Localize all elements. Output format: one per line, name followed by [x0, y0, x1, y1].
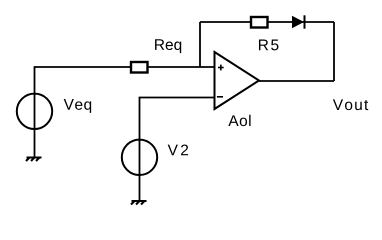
- label V2: [168, 144, 188, 155]
- wire right vertical from feedback down to output: [333, 22, 335, 81]
- op-amp + input mark: [218, 65, 224, 71]
- wire op-amp output to Vout node: [259, 80, 335, 82]
- wire feedback riser at node between Req and + input: [199, 22, 201, 67]
- label Vout: [333, 99, 368, 110]
- voltage source V2: [122, 140, 157, 175]
- op-amp Aol triangle: [215, 52, 260, 109]
- label Aol: [228, 115, 250, 126]
- wire from V2 up and across to op-amp - input: [140, 98, 215, 202]
- op-amp - input mark: [217, 96, 223, 98]
- wire from Veq up and across to resistor Req and op-amp + input: [35, 67, 215, 158]
- wire top feedback horizontal through R5 and diode: [200, 21, 334, 23]
- ground under V2: [131, 201, 147, 205]
- voltage source Veq: [17, 94, 52, 129]
- label Veq: [64, 99, 92, 113]
- ground under Veq: [26, 158, 42, 162]
- resistor R5: [251, 17, 268, 28]
- resistor Req: [131, 62, 148, 73]
- diode D1: [292, 15, 305, 28]
- label R5: [259, 40, 278, 51]
- label Req: [155, 39, 181, 53]
